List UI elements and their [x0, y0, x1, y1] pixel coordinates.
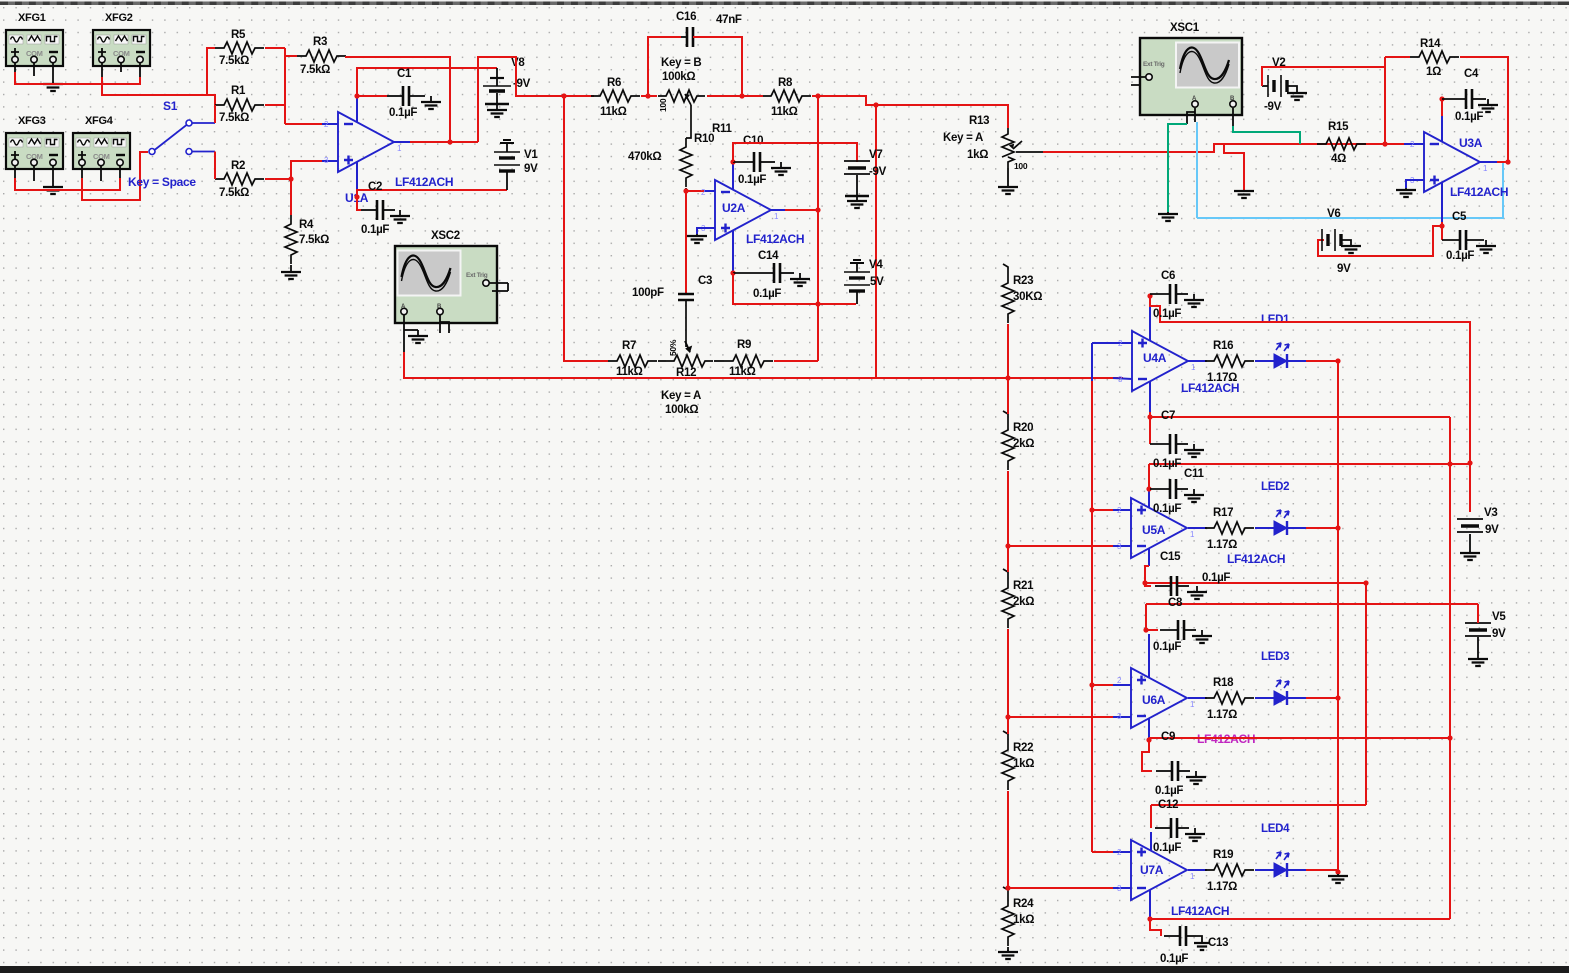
XSC2 A terminal: [401, 308, 407, 314]
oscilloscope XSC1: [1140, 38, 1242, 115]
V7 minus T-bar: [845, 195, 869, 198]
svg-text:0.1µF: 0.1µF: [361, 224, 389, 236]
op-amp U3A: [1424, 132, 1480, 192]
wire XFG3 + stub: [14, 166, 16, 178]
capacitor C14: [733, 272, 774, 274]
wire V2 to R14 node: [1262, 67, 1385, 86]
svg-text:C12: C12: [1158, 799, 1178, 811]
resistor R16: [1205, 355, 1254, 367]
svg-text:R17: R17: [1213, 507, 1233, 519]
wire R18 to LED: [1255, 697, 1274, 699]
junction U3A V- node: [1439, 223, 1444, 228]
op-amp U2A: [715, 180, 771, 240]
resistor R20: [1002, 421, 1014, 470]
svg-text:U4A: U4A: [1143, 351, 1167, 365]
wire U6A - line: [1008, 716, 1113, 718]
wire R24 bottom lead: [1007, 947, 1009, 952]
wire node to C3: [685, 191, 687, 293]
svg-text:Key = A: Key = A: [661, 390, 701, 402]
ground at C5: [1485, 240, 1487, 246]
wire U3A V+ pin: [1441, 116, 1443, 142]
wire U2A V+ pin: [732, 162, 734, 189]
resistor R2: [215, 173, 264, 185]
capacitor C4: [1442, 98, 1466, 100]
resistor R21: [1002, 579, 1014, 628]
svg-text:XSC2: XSC2: [431, 230, 460, 242]
ground at C15: [1196, 586, 1198, 592]
resistor R1: [215, 99, 264, 111]
svg-text:100kΩ: 100kΩ: [662, 71, 695, 83]
wire U7A - line: [1008, 887, 1113, 889]
wire XFG4 COM stub: [100, 166, 102, 181]
wire C12 red up: [1150, 805, 1152, 828]
junction C11 node: [1146, 486, 1151, 491]
wire U5A - blue: [1113, 545, 1131, 547]
wire U5A + blue: [1113, 509, 1131, 511]
op-amp U4A: [1132, 331, 1188, 391]
svg-text:1kΩ: 1kΩ: [1013, 914, 1034, 926]
wire LED4 out blue: [1287, 869, 1306, 871]
svg-text:LF412ACH: LF412ACH: [1227, 552, 1285, 566]
wire C7 cap stub: [1149, 417, 1151, 444]
svg-text:U3A: U3A: [1459, 136, 1483, 150]
svg-text:470kΩ: 470kΩ: [628, 151, 661, 163]
wire XFG3 - stub: [52, 166, 54, 186]
wire V5 bottom lead: [1477, 637, 1479, 658]
svg-text:R18: R18: [1213, 677, 1234, 689]
wire U1A - input blue: [322, 123, 338, 125]
wire rail x818: [817, 96, 819, 361]
wire XSC2 A gnd jog: [404, 329, 418, 331]
resistor R18: [1205, 692, 1254, 704]
capacitor C10: [733, 161, 754, 163]
C13 gnd step: [1196, 936, 1202, 942]
svg-text:R20: R20: [1013, 422, 1033, 434]
svg-text:XFG1: XFG1: [18, 12, 46, 24]
wire R15 right: [1367, 143, 1404, 145]
wire U7A V+ pin: [1150, 832, 1152, 850]
svg-text:2kΩ: 2kΩ: [1013, 438, 1034, 450]
svg-text:R21: R21: [1013, 580, 1034, 592]
wire U6A V+ pin: [1148, 634, 1150, 678]
wire C9 line: [1149, 737, 1450, 739]
capacitor C1: [387, 95, 403, 97]
junction ladder node2: [1005, 543, 1010, 548]
svg-text:R22: R22: [1013, 742, 1033, 754]
svg-text:C14: C14: [758, 250, 779, 262]
wire R19 to LED: [1255, 869, 1274, 871]
resistor R22: [1002, 741, 1014, 790]
junction U2A V+ node: [730, 159, 735, 164]
ground under R4: [290, 271, 292, 272]
ground under V7: [856, 196, 858, 201]
wire U5A - line: [1008, 545, 1113, 547]
wire U4A + blue: [1092, 342, 1132, 344]
svg-text:XFG2: XFG2: [105, 12, 133, 24]
svg-text:C7: C7: [1161, 410, 1175, 422]
wire R13 wiper lead: [1016, 151, 1043, 153]
ground at C1: [430, 96, 432, 102]
svg-text:R4: R4: [299, 219, 314, 231]
svg-text:C2: C2: [368, 181, 382, 193]
wire C7 rail: [1449, 417, 1451, 919]
wire U5A V- pin: [1148, 548, 1150, 566]
svg-text:0.1µF: 0.1µF: [1153, 842, 1181, 854]
switch S1: [149, 149, 155, 155]
ground at C8: [1201, 630, 1203, 636]
resistor R8: [762, 90, 811, 102]
potentiometer R12 Key=A: [666, 355, 713, 367]
svg-text:11kΩ: 11kΩ: [616, 366, 643, 378]
ground at C14: [799, 273, 801, 279]
wire + rail: [1091, 380, 1093, 852]
svg-text:0.1µF: 0.1µF: [1455, 111, 1483, 123]
wire V5 top lead: [1477, 604, 1479, 623]
svg-text:U2A: U2A: [722, 201, 746, 215]
wire U1A - input: [285, 123, 322, 125]
wire XFG2+ to R1/R5 node: [102, 77, 215, 123]
wire U5A out blue: [1188, 527, 1207, 529]
junction C16 right node: [739, 93, 744, 98]
wire U2A + jog: [697, 228, 715, 234]
wire V1 bottom lead: [506, 172, 508, 190]
junction ladder node3: [1005, 714, 1010, 719]
bottom window border: [0, 966, 1569, 973]
svg-text:9V: 9V: [1337, 263, 1351, 275]
wire LED3 out blue: [1287, 697, 1306, 699]
wire rail x876: [875, 105, 877, 378]
wire U3A - blue: [1404, 143, 1424, 145]
wire pot to R8: [707, 95, 763, 97]
wire U7A + blue: [1113, 851, 1131, 853]
wire ladder seg2: [1007, 471, 1009, 572]
battery V8: [490, 77, 504, 79]
svg-text:11kΩ: 11kΩ: [729, 366, 756, 378]
junction + node U6A: [1089, 682, 1094, 687]
wire U4A V- red: [1149, 412, 1151, 417]
wire ladder seg1: [1007, 324, 1009, 414]
junction + node U5A: [1089, 507, 1094, 512]
junction rail/R6 node: [561, 93, 566, 98]
wire V2 left lead: [1262, 85, 1268, 87]
svg-text:0.1µF: 0.1µF: [1153, 458, 1181, 470]
svg-text:7.5kΩ: 7.5kΩ: [219, 187, 249, 199]
wire V3 line: [1149, 463, 1470, 465]
wire R13 to R15: [1043, 144, 1404, 152]
svg-text:0.1µF: 0.1µF: [1155, 785, 1183, 797]
wire gnd branch right: [1224, 144, 1244, 190]
wire R16 to LED: [1255, 360, 1274, 362]
wire U6A out blue: [1188, 697, 1207, 699]
wire C8 drop: [1146, 604, 1158, 630]
capacitor C6: [1150, 293, 1170, 295]
ground under V8: [496, 104, 498, 110]
junction LED rail n3: [1335, 695, 1340, 700]
wire V- to C2: [357, 197, 361, 210]
wire XFG1+ to XFG2-: [15, 72, 140, 84]
svg-text:9V: 9V: [524, 163, 538, 175]
wire U6A + line: [1092, 684, 1113, 686]
junction R8 right: [815, 93, 820, 98]
wire C15 jog: [1145, 566, 1151, 586]
wire R2 to U1A +: [291, 161, 322, 179]
wire R17 to LED: [1255, 527, 1274, 529]
junction V3 line/C7rail: [1447, 461, 1452, 466]
svg-text:C3: C3: [698, 275, 712, 287]
ground at C10: [780, 162, 782, 168]
ground mid right: [1243, 190, 1245, 191]
svg-text:C6: C6: [1161, 270, 1175, 282]
wire U2A output blue: [771, 209, 785, 211]
battery V3: [1457, 518, 1483, 520]
svg-text:LED2: LED2: [1261, 481, 1289, 493]
wire U2A output: [785, 209, 818, 211]
junction V+ C1 node: [354, 93, 359, 98]
wire R3-R1 vertical: [284, 48, 286, 124]
wire U3A output red: [1497, 161, 1508, 163]
ground at U3A +: [1405, 188, 1407, 190]
battery V2: [1267, 75, 1269, 97]
wire U1A output: [410, 141, 478, 143]
svg-text:C8: C8: [1168, 597, 1183, 609]
wire XSC2 A to bottom rail: [404, 352, 876, 378]
svg-text:9V: 9V: [1492, 628, 1506, 640]
wire U6A V- pin: [1148, 718, 1150, 738]
wire V3 top lead: [1469, 464, 1471, 512]
ground under R24: [1007, 950, 1009, 952]
svg-text:C9: C9: [1161, 731, 1175, 743]
wire U4A V+ pin: [1149, 304, 1151, 341]
wire C7 line: [1150, 416, 1450, 418]
wire U3A output blue: [1480, 161, 1497, 163]
V8 minus T-bar: [485, 103, 509, 106]
junction U3A output node: [1505, 159, 1510, 164]
wire R4 bottom lead: [290, 265, 292, 271]
junction C4 node: [1439, 96, 1444, 101]
ground at V6: [1350, 245, 1352, 246]
capacitor C8: [1160, 629, 1178, 631]
capacitor C15: [1155, 585, 1171, 587]
svg-text:1Ω: 1Ω: [1426, 66, 1441, 78]
svg-text:Ext Trig: Ext Trig: [1143, 61, 1165, 68]
wire V7 bottom lead: [856, 175, 858, 196]
resistor R10: [680, 138, 692, 187]
capacitor C3: [678, 294, 694, 300]
junction U2A output node: [815, 207, 820, 212]
wire XSC2 A stub: [403, 315, 405, 352]
R13 pot: [1002, 128, 1014, 157]
wire U7A V- pin: [1149, 890, 1151, 917]
LED LED1: [1274, 354, 1287, 368]
wire C11 red up: [1148, 464, 1150, 489]
svg-text:7.5kΩ: 7.5kΩ: [299, 234, 329, 246]
svg-text:LF412ACH: LF412ACH: [1171, 904, 1229, 918]
svg-text:100kΩ: 100kΩ: [665, 404, 698, 416]
wire V- to V4: [733, 273, 856, 304]
capacitor C2: [361, 209, 377, 211]
svg-text:-9V: -9V: [1264, 101, 1282, 113]
wire U5A + line: [1092, 509, 1113, 511]
resistor R6: [591, 90, 640, 102]
ground under V3: [1469, 552, 1471, 553]
capacitor C11: [1150, 488, 1170, 490]
svg-text:V4: V4: [869, 259, 883, 271]
wire R13 bottom: [1007, 168, 1009, 186]
wire XSC2 B stub: [439, 315, 441, 333]
svg-text:7.5kΩ: 7.5kΩ: [219, 55, 249, 67]
ground LED rail: [1337, 874, 1339, 876]
function generator XFG2: [93, 30, 150, 66]
XSC1 B terminal: [1230, 101, 1236, 107]
ground at C13: [1201, 942, 1203, 943]
wire XFG2 COM stub: [120, 63, 122, 72]
svg-text:V7: V7: [869, 149, 882, 161]
wire upper throw to R1: [214, 105, 216, 123]
wire ladder seg3: [1007, 629, 1009, 734]
wire U2A - blue: [704, 190, 715, 192]
svg-text:Ext Trig: Ext Trig: [466, 272, 488, 279]
wire teal wire: [1168, 124, 1187, 212]
wire XSC1 A stub: [1194, 108, 1196, 122]
wire bottom rail right: [1150, 918, 1450, 920]
svg-text:R3: R3: [313, 36, 327, 48]
junction C15 node: [1142, 580, 1147, 585]
wire XFG2 - stub: [139, 63, 141, 77]
junction ladder node4: [1005, 885, 1010, 890]
XSC1 A terminal: [1192, 101, 1198, 107]
svg-text:LF412ACH: LF412ACH: [395, 175, 453, 189]
svg-text:Key = A: Key = A: [943, 132, 983, 144]
wire XFG4+ to S1 pole: [82, 152, 148, 200]
wire U7A - blue: [1113, 887, 1131, 889]
svg-text:XFG3: XFG3: [18, 115, 46, 127]
junction LED rail n1: [1335, 358, 1340, 363]
svg-text:C15: C15: [1160, 551, 1181, 563]
wire output up: [478, 57, 594, 142]
junction C9/C7 rail node: [1447, 735, 1452, 740]
function generator XFG4: [73, 133, 130, 169]
junction V- node: [354, 194, 359, 199]
svg-text:V1: V1: [524, 149, 538, 161]
wire XFG1 - stub: [52, 63, 54, 83]
op-amp U1A: [338, 112, 394, 172]
wire RP1 wiper down: [686, 105, 691, 138]
LED LED2: [1274, 521, 1287, 535]
svg-text:1.17Ω: 1.17Ω: [1207, 709, 1237, 721]
svg-text:50%: 50%: [668, 339, 678, 356]
svg-text:C10: C10: [743, 135, 763, 147]
svg-text:100pF: 100pF: [632, 287, 664, 299]
ground at U2A +: [696, 234, 698, 236]
junction C16 left node: [645, 93, 650, 98]
svg-text:V3: V3: [1484, 507, 1497, 519]
V6 gnd step: [1341, 240, 1351, 245]
wire V4 bottom lead: [856, 292, 858, 304]
op-amp U5A: [1131, 498, 1187, 558]
svg-text:47nF: 47nF: [716, 14, 742, 26]
XSC1 Ext Trig terminal: [1146, 74, 1152, 80]
svg-text:U5A: U5A: [1142, 523, 1166, 537]
svg-text:R16: R16: [1213, 340, 1233, 352]
resistor R7: [608, 355, 657, 367]
capacitor C7: [1150, 443, 1170, 445]
ground at V2: [1296, 92, 1298, 93]
svg-text:R9: R9: [737, 339, 751, 351]
svg-text:XSC1: XSC1: [1170, 22, 1200, 34]
junction rail x876 top: [873, 102, 878, 107]
junction C6 node: [1147, 293, 1152, 298]
wire LED3 out red: [1306, 697, 1338, 699]
junction x818/304: [815, 301, 820, 306]
battery V5: [1465, 622, 1491, 624]
svg-text:0.1µF: 0.1µF: [753, 288, 781, 300]
svg-text:R5: R5: [231, 29, 246, 41]
wire U3A V+ red: [1441, 99, 1443, 116]
svg-text:R24: R24: [1013, 898, 1034, 910]
wire U2A - input: [686, 190, 704, 192]
wire LED rail: [1337, 361, 1339, 872]
wire R7-R12: [658, 360, 666, 362]
svg-text:V5: V5: [1492, 611, 1506, 623]
battery V4: [850, 260, 864, 263]
svg-text:0.1µF: 0.1µF: [1160, 953, 1188, 965]
wire R4 top: [290, 179, 292, 215]
resistor R17: [1205, 522, 1254, 534]
resistor R19: [1205, 864, 1254, 876]
svg-text:R14: R14: [1420, 38, 1441, 50]
svg-text:0.1µF: 0.1µF: [1202, 572, 1230, 584]
wire R14 right to output: [1460, 57, 1508, 162]
wire U2A V+ loop: [733, 143, 857, 162]
wire cyan long wire: [1197, 163, 1503, 218]
svg-text:LF412ACH: LF412ACH: [746, 232, 804, 246]
svg-text:LF412ACH: LF412ACH: [1450, 185, 1508, 199]
capacitor C5: [1442, 239, 1460, 241]
junction LED rail n2: [1335, 525, 1340, 530]
svg-text:C13: C13: [1208, 937, 1228, 949]
wire XFG3+ to XFG4-: [15, 178, 120, 190]
wire R5 branch: [207, 48, 215, 95]
wire U1A output blue: [394, 141, 410, 143]
svg-text:7.5kΩ: 7.5kΩ: [219, 112, 249, 124]
wire R6 right: [641, 95, 657, 97]
wire cyan vertical: [1196, 122, 1198, 218]
svg-text:R7: R7: [622, 340, 636, 352]
wire R1 right to R3 left and U1A -: [265, 104, 285, 106]
resistor R4: [285, 215, 297, 264]
junction R15/R14 node: [1382, 141, 1387, 146]
LED LED3: [1274, 691, 1287, 705]
svg-text:LED3: LED3: [1261, 651, 1289, 663]
wire U7A + line: [1092, 851, 1113, 853]
wire C1 left wire: [357, 95, 387, 97]
capacitor C9: [1156, 770, 1172, 772]
wire U4A V- pin: [1149, 381, 1151, 412]
junction LED rail n4: [1335, 869, 1340, 874]
svg-text:1.17Ω: 1.17Ω: [1207, 881, 1237, 893]
svg-text:100: 100: [1014, 161, 1028, 171]
svg-text:R2: R2: [231, 160, 245, 172]
XSC2 Ext Trig terminal: [483, 280, 489, 286]
junction C13 node: [1147, 916, 1152, 921]
wire R10 bottom: [685, 188, 687, 191]
ground at XSC2 A: [417, 330, 419, 336]
junction rail/ladder node: [1005, 375, 1010, 380]
wire V- red down: [1441, 222, 1443, 240]
svg-text:0.1µF: 0.1µF: [389, 107, 417, 119]
svg-text:0.1µF: 0.1µF: [1153, 641, 1181, 653]
wire U5A V+ pin: [1148, 489, 1150, 508]
